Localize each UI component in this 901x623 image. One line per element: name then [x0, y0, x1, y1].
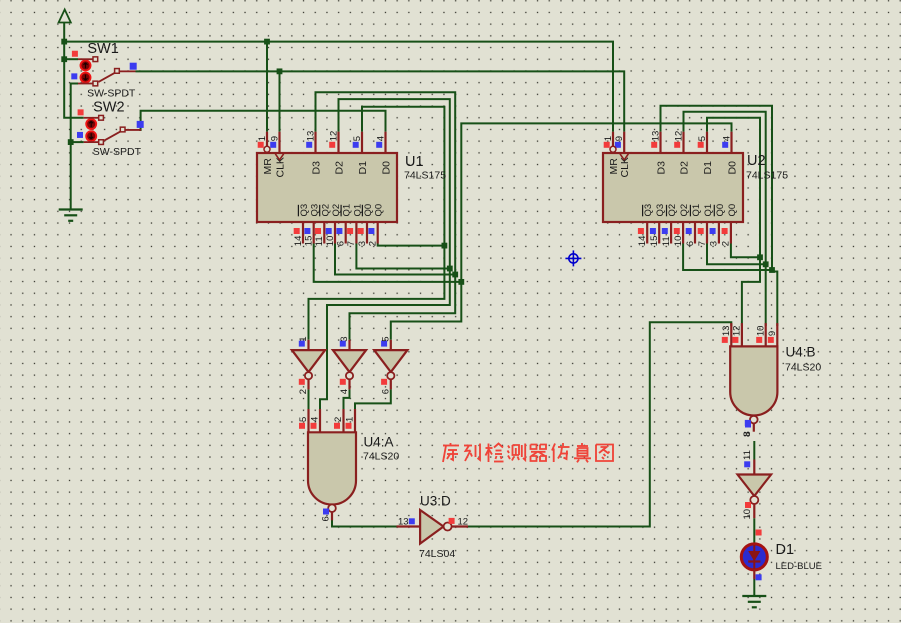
svg-text:1: 1	[257, 136, 268, 141]
svg-text:Q2: Q2	[331, 204, 342, 217]
svg-text:8: 8	[742, 431, 753, 436]
svg-text:4: 4	[339, 389, 350, 394]
U3:D pin 12 state square	[449, 518, 455, 524]
junction Q0/D1 net	[442, 243, 448, 249]
svg-text:U1: U1	[405, 154, 424, 170]
svg-text:12: 12	[673, 131, 684, 142]
inverter U3:C (NOT gate)	[390, 340, 392, 350]
svg-text:13: 13	[398, 517, 409, 528]
state square blue SW1	[71, 73, 77, 79]
svg-text:D1: D1	[357, 161, 369, 175]
junction Q2/D3 net	[452, 272, 458, 278]
wire U1 CLK drop	[279, 71, 281, 131]
svg-text:Q2: Q2	[679, 204, 690, 217]
wire SW2 data to U1 D0	[139, 111, 385, 132]
power symbol VCC arrow	[59, 10, 71, 23]
wire U1 Q3 out	[314, 244, 462, 282]
wire U2 D1 loop	[707, 118, 760, 326]
svg-text:Q1: Q1	[691, 204, 702, 217]
svg-text:4: 4	[310, 417, 321, 422]
svg-text:13: 13	[721, 326, 732, 337]
svg-text:15: 15	[304, 236, 315, 247]
svg-text:10: 10	[755, 326, 766, 337]
svg-text:SW1: SW1	[87, 41, 118, 57]
U2 CLK edge wedge	[620, 154, 628, 160]
svg-text:12: 12	[328, 131, 339, 142]
switch SW1 (SW-SPDT)	[78, 57, 136, 86]
red title text 序列检测器仿真图 (drawn strokes)	[443, 443, 613, 462]
origin marker crosshair	[565, 250, 581, 266]
svg-text:4: 4	[375, 136, 386, 141]
inverter U3:D (NOT gate)	[397, 525, 421, 527]
svg-text:9: 9	[614, 136, 625, 141]
junction VCC/stem	[61, 39, 67, 45]
wire U2 D3 loop	[661, 106, 778, 326]
state square above LED	[756, 530, 762, 536]
junction U2 Q0/D1 net	[757, 254, 763, 260]
svg-text:CLK: CLK	[619, 157, 631, 177]
svg-text:10: 10	[325, 236, 336, 247]
svg-text:Q0: Q0	[727, 204, 738, 217]
svg-text:74LS20: 74LS20	[363, 451, 399, 463]
state square blue SW2	[77, 132, 83, 138]
LED D1 (LED-BLUE)	[741, 544, 767, 570]
U3:D pin 13 state square	[409, 518, 415, 524]
svg-text:U2: U2	[747, 153, 766, 169]
wire LED to ground	[753, 579, 755, 596]
state square SW1 output wire	[130, 63, 137, 70]
IC U2 74LS175 body	[603, 153, 743, 222]
wire U4:A out to U3:D in	[332, 516, 397, 527]
wire U2 Q0 out	[731, 244, 760, 258]
junction Q1/D2 net	[447, 266, 453, 272]
wire U2 D2 loop	[684, 112, 766, 326]
IC U1 74LS175 body	[257, 153, 397, 222]
junction Q3/T5 net	[458, 279, 464, 285]
svg-text:D3: D3	[656, 161, 668, 175]
wire U1 Q3 to U2 D0 (T5)	[391, 123, 732, 339]
wire U1 Q0 out	[378, 244, 445, 246]
svg-text:6: 6	[685, 241, 696, 246]
svg-text:D1: D1	[702, 161, 714, 175]
svg-text:D1: D1	[776, 542, 795, 558]
svg-text:U4:A: U4:A	[364, 435, 394, 450]
wire U1 D2 loop (Q1 net)	[320, 99, 450, 409]
svg-text:MR: MR	[608, 158, 620, 175]
svg-text:1: 1	[298, 337, 309, 342]
svg-text:CLK: CLK	[275, 157, 287, 177]
wire inv1 out to U4:A pin5	[308, 389, 310, 409]
svg-text:Q1: Q1	[703, 204, 714, 217]
svg-text:74LS04: 74LS04	[419, 548, 455, 560]
svg-text:10: 10	[673, 236, 684, 247]
svg-text:2: 2	[298, 389, 309, 394]
svg-text:5: 5	[352, 136, 363, 141]
svg-text:14: 14	[637, 236, 648, 247]
wire U2 Q2 out	[683, 244, 772, 271]
wire clock horizontal	[136, 71, 625, 131]
wire inv2 out to U4:A pin2	[344, 389, 350, 409]
svg-text:Q3: Q3	[655, 204, 666, 217]
svg-text:Q1: Q1	[342, 204, 353, 217]
svg-text:11: 11	[661, 236, 672, 246]
state square inverter input 11	[744, 461, 750, 467]
svg-text:Q3: Q3	[299, 204, 310, 217]
junction VCC/SW1	[61, 56, 67, 62]
svg-text:2: 2	[721, 241, 732, 246]
svg-text:SW2: SW2	[93, 100, 124, 116]
svg-text:D2: D2	[334, 161, 346, 175]
inverter U3:A (NOT gate)	[307, 340, 309, 350]
wire VCC to SW1 top throw	[64, 58, 78, 60]
svg-text:74LS175: 74LS175	[746, 170, 788, 182]
junction ground rail SW2	[68, 139, 74, 145]
svg-text:U4:B: U4:B	[786, 345, 816, 360]
svg-text:5: 5	[380, 337, 391, 342]
U2 bottom pins with numbers and state squares	[646, 222, 648, 244]
svg-text:SW-SPDT: SW-SPDT	[87, 87, 136, 99]
U1 top pins (MR,CLK,D3,D2,D1,D0) with numbers and state squares	[266, 132, 268, 153]
wire VCC top horizontal	[64, 42, 613, 132]
state square U4:B output	[745, 422, 751, 428]
svg-text:Q1: Q1	[352, 204, 363, 217]
state square red SW1	[72, 51, 78, 57]
svg-text:Q0: Q0	[363, 204, 374, 217]
wire SW1 bottom throw to ground rail	[71, 84, 78, 209]
svg-text:5: 5	[298, 417, 309, 422]
svg-text:9: 9	[269, 136, 280, 141]
wire inv3 out to U4:A pin1	[355, 389, 391, 409]
svg-text:74LS175: 74LS175	[404, 170, 446, 182]
svg-text:3: 3	[709, 241, 720, 246]
U1 CLK edge wedge	[275, 154, 283, 160]
state square red SW2	[78, 109, 84, 115]
svg-text:15: 15	[649, 236, 660, 247]
wire U1 Q2 out	[335, 244, 455, 275]
wire U1 MR drop	[266, 42, 268, 132]
svg-text:Q3: Q3	[310, 204, 321, 217]
svg-text:Q0: Q0	[374, 204, 385, 217]
U1 bottom pins with numbers and state squares	[302, 222, 304, 244]
svg-text:Q3: Q3	[643, 204, 654, 217]
NAND gate U4:A 74LS20	[307, 409, 309, 432]
junction U2 Q1/D2 net	[763, 261, 769, 267]
wire VCC rail vertical	[64, 23, 84, 118]
svg-text:D2: D2	[679, 161, 691, 175]
svg-text:4: 4	[721, 136, 732, 141]
svg-text:MR: MR	[262, 158, 274, 175]
svg-text:SW-SPDT: SW-SPDT	[93, 146, 142, 158]
svg-text:2: 2	[333, 417, 344, 422]
U2 top pins (MR,CLK,D3,D2,D1,D0) with numbers and state squares	[612, 132, 614, 153]
svg-text:7: 7	[697, 241, 708, 246]
U2 MR inversion bubble	[610, 146, 616, 152]
svg-text:LED-BLUE: LED-BLUE	[776, 561, 822, 572]
svg-text:9: 9	[767, 331, 778, 336]
wire U3:D out to U4:B pin13	[468, 322, 731, 526]
state square below LED	[756, 574, 762, 580]
svg-text:14: 14	[293, 236, 304, 247]
svg-text:74LS20: 74LS20	[785, 362, 821, 374]
svg-text:6: 6	[320, 516, 331, 521]
wire U1 Q1 out	[356, 244, 449, 269]
wire inverter to LED	[753, 518, 755, 543]
svg-text:D0: D0	[381, 161, 393, 175]
switch SW2 (SW-SPDT)	[84, 115, 142, 144]
svg-text:2: 2	[368, 241, 379, 246]
svg-text:10: 10	[742, 509, 753, 520]
NAND gate U4:B 74LS20	[730, 323, 732, 346]
svg-text:1: 1	[345, 417, 356, 422]
svg-text:Q2: Q2	[320, 204, 331, 217]
U1 MR inversion bubble	[264, 146, 270, 152]
svg-text:U3:D: U3:D	[420, 494, 451, 509]
svg-text:6: 6	[336, 241, 347, 246]
svg-text:5: 5	[697, 136, 708, 141]
svg-text:11: 11	[314, 236, 325, 246]
wire U2 Q1 out	[707, 244, 766, 265]
svg-text:3: 3	[357, 241, 368, 246]
junction U2 Q2/D3 net	[769, 267, 775, 273]
inverter U3 stage to LED (NOT gate)	[753, 460, 755, 475]
ground symbol under LED	[742, 596, 766, 607]
inverter U3:B (NOT gate)	[348, 340, 350, 350]
wire U4:B out to inverter	[753, 441, 755, 460]
state square SW2 output wire	[137, 121, 144, 128]
svg-text:3: 3	[339, 337, 350, 342]
wire U1 D3 loop (Q2 net)	[316, 92, 456, 339]
svg-text:12: 12	[732, 326, 743, 337]
svg-text:12: 12	[458, 517, 469, 528]
junction U1 MR	[264, 39, 270, 45]
svg-text:Q0: Q0	[715, 204, 726, 217]
svg-text:D3: D3	[311, 161, 323, 175]
ground symbol left	[59, 210, 83, 221]
state square inverter output 10	[745, 502, 751, 508]
svg-text:D0: D0	[727, 161, 739, 175]
svg-text:7: 7	[346, 241, 357, 246]
svg-text:1: 1	[603, 136, 614, 141]
svg-text:6: 6	[380, 389, 391, 394]
svg-text:13: 13	[650, 131, 661, 142]
svg-text:11: 11	[742, 450, 753, 460]
junction U1 CLK	[277, 68, 283, 74]
wire U1 D1 loop (Q0 net)	[309, 107, 445, 340]
svg-text:13: 13	[305, 131, 316, 142]
svg-text:Q2: Q2	[667, 204, 678, 217]
wire ground rail to SW2 bottom throw	[71, 141, 84, 143]
